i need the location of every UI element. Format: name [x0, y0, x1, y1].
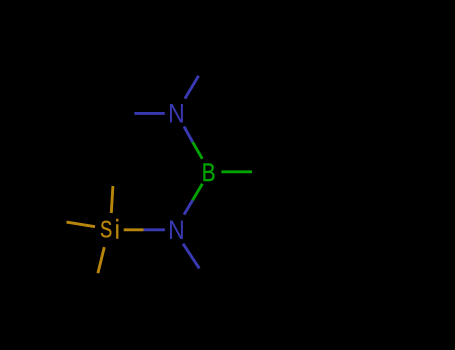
wire: bond N1-B lower half (green, B side) — [193, 142, 203, 159]
wire: bond B-CH3 right (methyl) — [221, 170, 252, 173]
atom B (boron) — [202, 158, 216, 186]
atom Si: letter i (silicon) — [115, 215, 120, 245]
wire: bond N2-CH3 down-right (methyl) — [183, 244, 199, 269]
atom Si: letter S (silicon) — [100, 216, 112, 243]
wire: bond N1-B upper half (blue, N side) — [184, 127, 193, 143]
wire: bond N2-Si right half (blue, N side) — [144, 228, 165, 231]
wire: bond Si-CH3 up (methyl) — [111, 186, 113, 213]
atom N2 (lower nitrogen) — [168, 215, 185, 245]
svg-text:B: B — [202, 158, 216, 186]
wire: bond Si-CH3 down-left (methyl) — [98, 247, 104, 273]
svg-text:N: N — [168, 215, 185, 245]
wire: bond N2-Si left half (gold, Si side) — [124, 228, 144, 231]
svg-text:S: S — [100, 216, 112, 243]
wire: bond B-N2 upper half (green, B side) — [193, 184, 203, 200]
svg-text:i: i — [115, 215, 120, 245]
atom N1 (upper nitrogen) — [168, 99, 185, 129]
svg-text:N: N — [168, 99, 185, 129]
wire: bond B-N2 lower half (blue, N side) — [184, 200, 193, 214]
wire: bond N1-CH3 up-right (methyl) — [185, 76, 199, 99]
wire: bond N1-CH3 left (methyl) — [134, 112, 164, 115]
wire: bond Si-CH3 left (methyl) — [67, 222, 96, 227]
